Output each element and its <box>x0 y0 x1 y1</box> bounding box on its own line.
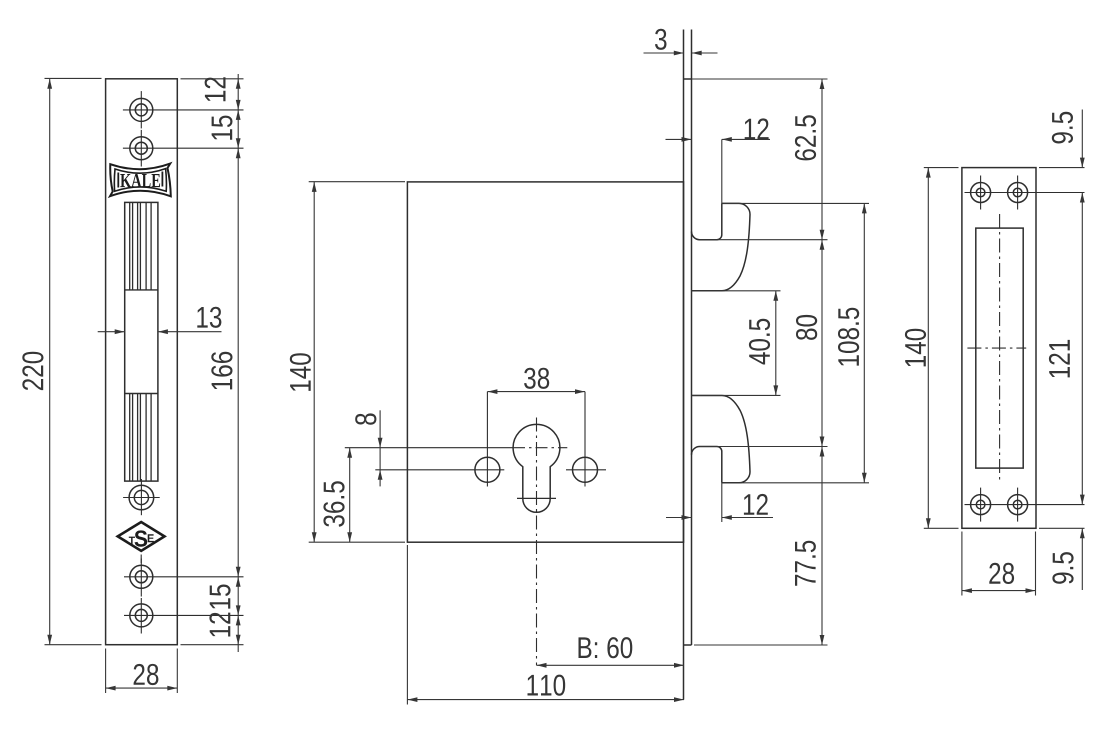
TSE logo <box>118 522 165 551</box>
lock body outline <box>407 182 683 542</box>
strike plate top holes centre line <box>965 192 1085 194</box>
bottom hook upper edge extension line <box>692 394 781 396</box>
strike plate screw hole 1 <box>971 183 991 203</box>
dimension 3 (forend thickness) <box>644 52 684 54</box>
dimension 9.5 (bottom) <box>1081 528 1083 590</box>
dimension 38 <box>487 391 585 393</box>
strike plate cutout <box>976 228 1023 468</box>
latch bolt hatching (bottom) <box>129 394 131 482</box>
bottom hook bolt outline <box>692 396 751 483</box>
dimension 220 <box>49 79 51 645</box>
dimension 110 extension line (body left) <box>406 545 408 705</box>
strike plate bottom holes centre line <box>965 504 1085 506</box>
cylinder slot cross line <box>517 497 556 499</box>
dimension 28 (right view) extension lines <box>961 532 963 596</box>
dimension 140 (right view) extension lines <box>924 167 959 169</box>
faceplate screw hole 4 <box>130 604 153 627</box>
strike plate vertical centre line <box>999 214 1001 480</box>
dimension 13 <box>98 331 125 333</box>
dimension 40.5 <box>775 291 777 396</box>
dimension 80 <box>821 240 823 447</box>
faceplate screw hole 1 <box>130 98 153 121</box>
right dimension chain extension (plate bottom edge) <box>181 644 244 646</box>
hook mouth bottom extension line <box>700 446 828 448</box>
fixing holes horizontal centre line <box>375 469 504 471</box>
dimension 140 (middle) extension lines <box>309 181 405 183</box>
strike plate bottom edge extension line (right) <box>1039 527 1085 529</box>
strike plate top edge extension line (right) <box>1039 167 1085 169</box>
strike plate screw hole 4 <box>1008 495 1028 515</box>
bottom hook bolt mouth <box>692 447 722 483</box>
top hook lower edge extension line <box>692 290 781 292</box>
euro cylinder profile <box>513 424 560 512</box>
dimension 15 (top right chain) <box>237 110 239 148</box>
strike plate horizontal centre line <box>967 347 1026 349</box>
dimension 8 <box>379 410 381 486</box>
cylinder horizontal centre line <box>345 447 513 449</box>
dimension 15 (bottom right chain) <box>237 577 239 616</box>
right dimension chain extension (plate top edge) <box>181 78 244 80</box>
strike plate screw hole 3 <box>971 495 991 515</box>
cylinder screw hole <box>129 485 154 510</box>
forend top edge extension line <box>692 78 828 80</box>
left view: faceplate outline <box>106 79 178 645</box>
dimension 12 (top right chain) <box>237 74 239 79</box>
dimension 166 <box>237 148 239 577</box>
centre tick below TSE logo <box>140 555 142 564</box>
dimension 110 <box>407 699 684 701</box>
faceplate screw hole 3 <box>130 565 153 588</box>
top hook bolt mouth <box>692 203 722 239</box>
hook top edge extension line <box>722 202 869 204</box>
dimension 12 (top, hook offset) <box>721 139 723 203</box>
hook mouth top extension line <box>700 239 828 241</box>
dimension 121 <box>1081 193 1083 505</box>
dimension 28 (right view) <box>962 590 1036 592</box>
dimension 108.5 <box>863 203 865 482</box>
dimension 220 extension lines <box>45 77 102 79</box>
cylinder vertical centre line <box>536 418 538 666</box>
fixing hole right vertical centre line <box>584 392 586 487</box>
forend plate (edge view) <box>683 30 685 700</box>
dimension 62.5 <box>821 79 823 240</box>
strike plate outline <box>962 168 1036 529</box>
bottom hook bottom edge extension line <box>722 482 869 484</box>
fixing hole left <box>475 457 500 482</box>
dimension 28 (left view) <box>106 687 178 689</box>
dimension 12 (bottom, hook offset) <box>721 483 723 522</box>
fixing hole left vertical centre line <box>486 392 488 487</box>
latch bolt cutout <box>125 202 158 481</box>
strike plate screw hole 2 <box>1008 183 1028 203</box>
dimension 140 (right view) <box>927 168 929 529</box>
top hook bolt outline <box>692 203 751 290</box>
dimension B: 60 <box>537 664 685 666</box>
faceplate screw hole 2 <box>130 137 153 160</box>
dimension 77.5 <box>821 447 823 646</box>
dimension 9.5 (top) <box>1081 110 1083 168</box>
dimension 28 (left view) extension lines <box>105 649 107 694</box>
dimension 140 (middle) <box>313 182 315 542</box>
dimension 36.5 <box>349 448 351 543</box>
forend bottom edge extension line <box>694 644 828 646</box>
fixing hole right <box>573 457 598 482</box>
KALE logo <box>110 164 171 197</box>
latch bolt hatching (top) <box>129 202 131 290</box>
dimension 12 (bottom right chain) <box>237 615 239 644</box>
